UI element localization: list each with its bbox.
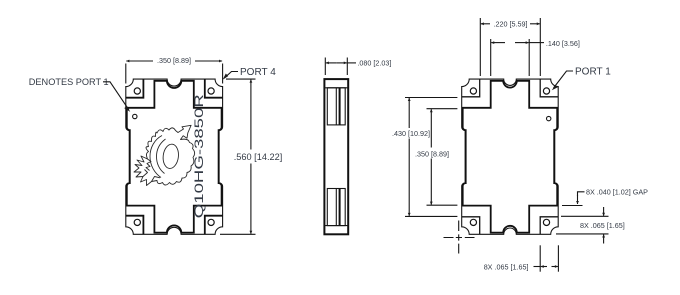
dim .350b extension lines: [427, 108, 458, 110]
svg-text:.430 [10.92]: .430 [10.92]: [392, 129, 430, 138]
svg-text:.140 [3.56]: .140 [3.56]: [546, 39, 580, 48]
bottom view pad hole bottom-right: [543, 219, 549, 225]
side view body: [324, 79, 348, 234]
top view pad bottom-right: [205, 216, 223, 235]
dim .140 line with arrows: [491, 42, 505, 44]
bottom view pad top-right: [540, 79, 558, 97]
top view pad hole top-right: [208, 88, 214, 94]
top view metallization contour: [127, 81, 222, 233]
dim .065 right extension lines: [561, 215, 609, 217]
bottom view pad hole top-left: [470, 88, 476, 94]
DENOTES PORT 1 leader: [103, 82, 129, 110]
svg-text:PORT 1: PORT 1: [575, 67, 611, 78]
datum centerline horizontal: [444, 237, 475, 239]
port 1 indicator dot: [133, 114, 137, 118]
side view top terminal band: [324, 87, 348, 89]
svg-text:.220 [5.59]: .220 [5.59]: [494, 20, 528, 29]
dim .350 extension line right: [222, 64, 224, 84]
svg-text:.560 [14.22]: .560 [14.22]: [234, 152, 283, 162]
dim .140 extension lines: [490, 39, 492, 76]
dim .350b line with arrows: [430, 109, 432, 147]
bottom view package outline: [462, 79, 559, 234]
dim .430 extension lines: [405, 97, 457, 99]
dim .065 right arrows: [603, 207, 605, 216]
bottom view pad bottom-right: [540, 217, 558, 235]
top view pad top-right: [205, 79, 223, 98]
side view bottom terminal band: [324, 225, 348, 227]
top view pad top-left: [126, 79, 144, 98]
bottom view pad top-left: [462, 79, 480, 97]
logo dragon flame: [134, 125, 195, 185]
GAP leader: [578, 192, 585, 196]
bottom view port 1 dot: [547, 116, 551, 120]
bottom view metallization contour: [463, 81, 558, 233]
top view pad hole top-left: [134, 88, 140, 94]
PORT 4 leader: [224, 72, 238, 79]
dim .560 line with arrows: [250, 80, 252, 150]
dim .080 line with arrows: [326, 62, 337, 64]
dim .080 extension lines: [324, 58, 326, 76]
dim .065 bottom extension lines: [539, 245, 541, 271]
datum centerline vertical: [458, 221, 460, 254]
bottom view pad bottom-left: [462, 217, 480, 235]
svg-text:.080 [2.03]: .080 [2.03]: [357, 58, 391, 67]
svg-text:DENOTES PORT 1: DENOTES PORT 1: [29, 77, 109, 87]
svg-text:8X .040 [1.02] GAP: 8X .040 [1.02] GAP: [586, 188, 648, 197]
dim .560 extension line top: [226, 78, 256, 80]
dim .560 extension line bottom: [220, 233, 256, 235]
top view pad hole bottom-left: [134, 219, 140, 225]
svg-text:8X .065 [1.65]: 8X .065 [1.65]: [580, 221, 625, 230]
svg-text:.350 [8.89]: .350 [8.89]: [157, 56, 191, 65]
dim .430 line with arrows: [408, 98, 410, 128]
bottom view pad hole top-right: [543, 88, 549, 94]
top view package outline: [126, 79, 223, 234]
bottom view pad hole bottom-left: [470, 219, 476, 225]
dim .220 extension lines: [479, 18, 481, 76]
top view pad bottom-left: [126, 216, 144, 235]
svg-text:PORT 4: PORT 4: [240, 67, 276, 78]
svg-text:.350 [8.89]: .350 [8.89]: [415, 149, 449, 158]
svg-text:8X .065 [1.65]: 8X .065 [1.65]: [484, 263, 529, 272]
dim .350 extension line left: [125, 64, 127, 84]
dim .065 bottom line with arrows: [541, 266, 547, 268]
dim .220 line with arrows: [481, 23, 490, 25]
dim .350 line with arrows: [126, 60, 153, 62]
gap extension line: [562, 205, 583, 207]
PORT 1 leader: [554, 71, 574, 88]
top view pad hole bottom-right: [208, 219, 214, 225]
